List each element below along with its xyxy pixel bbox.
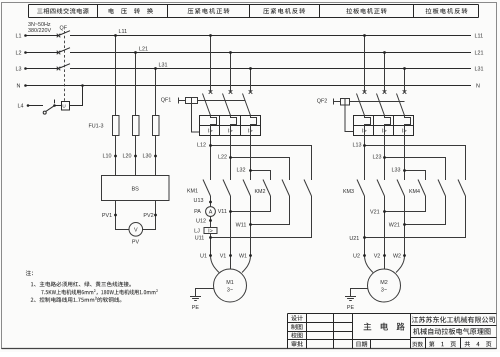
svg-text:V2: V2	[374, 253, 381, 259]
svg-text:3N~50Hz: 3N~50Hz	[28, 22, 51, 28]
svg-text:PA: PA	[194, 209, 201, 215]
svg-text:I>: I>	[208, 129, 213, 135]
svg-text:FU1-3: FU1-3	[89, 123, 104, 129]
svg-text:N: N	[17, 83, 21, 89]
svg-text:V21: V21	[370, 210, 380, 216]
svg-text:M2: M2	[380, 280, 388, 286]
svg-text:3~: 3~	[381, 288, 387, 294]
svg-text:V11: V11	[218, 209, 227, 215]
svg-text:W2: W2	[393, 253, 401, 259]
svg-text:L32: L32	[237, 168, 246, 174]
svg-text:L2: L2	[16, 50, 22, 56]
svg-text:U: U	[62, 104, 65, 109]
svg-text:QF1: QF1	[161, 98, 171, 104]
svg-text:I>: I>	[208, 229, 213, 235]
svg-text:L11: L11	[475, 33, 484, 39]
svg-text:I>: I>	[228, 129, 233, 135]
svg-text:KM2: KM2	[254, 189, 265, 195]
svg-text:KM3: KM3	[343, 189, 354, 195]
svg-text:L22: L22	[218, 155, 227, 161]
svg-text:L30: L30	[143, 153, 152, 159]
svg-text:U21: U21	[349, 236, 359, 242]
svg-text:BS: BS	[131, 187, 139, 193]
svg-text:KM1: KM1	[187, 189, 198, 195]
svg-text:L21: L21	[475, 50, 484, 56]
svg-text:PV2: PV2	[143, 213, 153, 219]
svg-text:N: N	[476, 83, 480, 89]
svg-text:QF2: QF2	[317, 99, 327, 105]
svg-text:L13: L13	[353, 143, 362, 149]
svg-text:L12: L12	[197, 143, 206, 149]
svg-text:L33: L33	[392, 168, 401, 174]
svg-text:L23: L23	[373, 155, 382, 161]
svg-text:U11: U11	[195, 236, 205, 242]
svg-text:I>: I>	[248, 129, 253, 135]
svg-text:L1: L1	[16, 33, 22, 39]
svg-text:I>: I>	[382, 129, 387, 135]
svg-text:L3: L3	[16, 66, 22, 72]
svg-text:V1: V1	[220, 253, 227, 259]
svg-text:V: V	[134, 227, 138, 233]
svg-text:A: A	[209, 210, 213, 216]
svg-text:L20: L20	[123, 153, 132, 159]
svg-text:U13: U13	[194, 198, 204, 204]
svg-text:KM4: KM4	[409, 189, 420, 195]
svg-text:L21: L21	[139, 46, 148, 52]
svg-text:PV: PV	[132, 239, 140, 245]
svg-text:QF: QF	[60, 26, 68, 32]
svg-text:U12: U12	[196, 219, 206, 225]
svg-text:L11: L11	[119, 29, 128, 35]
svg-text:M1: M1	[226, 280, 234, 286]
svg-text:L31: L31	[475, 66, 484, 72]
svg-text:W11: W11	[236, 223, 247, 229]
svg-text:W1: W1	[239, 253, 247, 259]
svg-text:W21: W21	[389, 222, 400, 228]
svg-text:PV1: PV1	[102, 213, 112, 219]
svg-text:3~: 3~	[227, 288, 233, 294]
svg-text:I>: I>	[362, 129, 367, 135]
svg-text:U1: U1	[200, 253, 207, 259]
svg-text:PE: PE	[192, 305, 200, 311]
svg-text:I>: I>	[402, 129, 407, 135]
svg-text:U2: U2	[353, 253, 360, 259]
svg-text:LJ: LJ	[194, 228, 200, 234]
svg-text:PE: PE	[347, 305, 355, 311]
svg-text:380/220V: 380/220V	[28, 28, 51, 34]
svg-text:L4: L4	[18, 103, 24, 109]
svg-text:L31: L31	[159, 63, 168, 69]
svg-text:L10: L10	[103, 153, 112, 159]
